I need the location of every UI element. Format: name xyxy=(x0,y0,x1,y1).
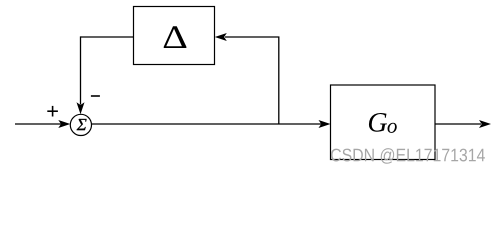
block U2 (Go, nominal plant) xyxy=(331,85,436,160)
label + (plus sign on input) xyxy=(47,106,58,117)
label o subscript of Go xyxy=(388,123,397,133)
block U1 (Delta, uncertainty block) xyxy=(134,7,215,65)
wire: Delta output going down to summing junction xyxy=(80,36,82,104)
label G of Go (value of block U2) xyxy=(369,113,387,132)
watermark CSDN @EL17171314 xyxy=(331,148,485,164)
arrowhead: into summing junction from top xyxy=(77,102,85,114)
wire: feedback tap, vertical then horizontal toward Delta xyxy=(225,37,279,124)
wire: Go output xyxy=(435,123,481,125)
arrowhead: feedback into block Delta xyxy=(215,33,227,41)
arrowhead: input into summing junction S1 xyxy=(58,120,70,128)
wire: summing junction output to Go input xyxy=(92,123,322,125)
label Δ (value of block U1) xyxy=(164,26,187,48)
wire: system input xyxy=(15,123,61,125)
wire: Delta output going left xyxy=(81,36,134,38)
label − (minus sign on feedback input) xyxy=(91,95,100,97)
summing junction S1 xyxy=(70,114,91,135)
label Σ (summing junction symbol) xyxy=(77,119,87,130)
arrowhead: system output xyxy=(479,120,491,128)
arrowhead: into block Go xyxy=(319,120,331,128)
